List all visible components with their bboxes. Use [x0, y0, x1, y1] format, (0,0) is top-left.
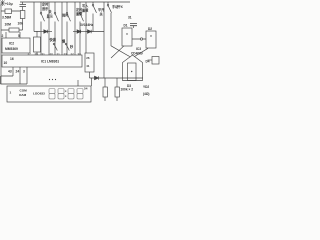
- svg-text:16: 16: [10, 57, 14, 61]
- svg-text:27: 27: [28, 52, 32, 56]
- svg-text:平开: 平开: [98, 7, 105, 12]
- svg-text:3: 3: [23, 69, 25, 73]
- svg-text:D4: D4: [146, 60, 150, 64]
- svg-text:21: 21: [57, 52, 61, 56]
- svg-text:闹时: 闹时: [62, 13, 69, 18]
- svg-text:显示: 显示: [47, 14, 54, 19]
- svg-text:干X: 干X: [118, 4, 124, 9]
- svg-text:10k: 10k: [18, 22, 24, 26]
- svg-text:MM5369: MM5369: [5, 47, 18, 51]
- svg-text:5: 5: [18, 34, 20, 38]
- svg-text:D1: D1: [124, 24, 128, 28]
- svg-text:100k × 2: 100k × 2: [121, 87, 134, 91]
- svg-text:33: 33: [78, 52, 82, 56]
- svg-text:43: 43: [8, 69, 12, 73]
- svg-text:IC1 LM8361: IC1 LM8361: [41, 60, 59, 64]
- svg-text:29: 29: [35, 52, 39, 56]
- svg-text:26: 26: [86, 56, 90, 60]
- svg-text:快调: 快调: [50, 37, 57, 42]
- svg-text:31: 31: [128, 16, 132, 20]
- svg-text:54: 54: [84, 87, 88, 91]
- svg-text:IC3: IC3: [136, 47, 141, 51]
- svg-text:10: 10: [4, 61, 8, 65]
- svg-text:D2: D2: [148, 27, 152, 31]
- svg-text:2: 2: [2, 34, 4, 38]
- svg-text:22: 22: [71, 52, 75, 56]
- svg-text:3.58M: 3.58M: [2, 16, 11, 20]
- svg-text:3V164Hz: 3V164Hz: [80, 23, 94, 27]
- svg-text:LOO633: LOO633: [33, 92, 45, 96]
- svg-text:重拨: 重拨: [82, 8, 89, 13]
- svg-text:IC2: IC2: [9, 42, 14, 46]
- svg-text:1: 1: [10, 91, 12, 95]
- svg-text:23: 23: [64, 52, 68, 56]
- svg-text:+10μ: +10μ: [5, 2, 13, 6]
- svg-text:41: 41: [86, 64, 90, 68]
- svg-text:20: 20: [50, 52, 54, 56]
- svg-text:24: 24: [16, 69, 20, 73]
- svg-text:定时: 定时: [42, 2, 49, 7]
- svg-text:写入: 写入: [82, 3, 89, 8]
- svg-text:31: 31: [42, 52, 46, 56]
- svg-text:10M: 10M: [5, 23, 12, 27]
- svg-text:CD4069: CD4069: [131, 52, 143, 56]
- svg-text:OAM: OAM: [19, 93, 27, 97]
- svg-text:(4Ω): (4Ω): [143, 92, 149, 96]
- svg-text:YD2: YD2: [143, 85, 149, 89]
